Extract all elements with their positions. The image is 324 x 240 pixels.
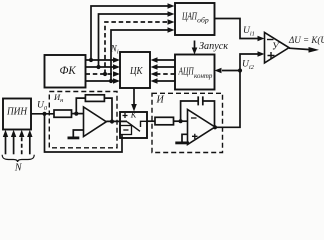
svg-text:ПИН: ПИН bbox=[6, 107, 28, 118]
wire ЦК to К bbox=[133, 88, 135, 105]
К switch lever bbox=[127, 122, 140, 132]
ground И_н bbox=[73, 130, 83, 137]
wire capacitor to output bbox=[203, 101, 215, 127]
wire bus line 1 (ФК to ЦК) bbox=[86, 59, 114, 61]
wire bus line 4 (ФК to ЦК) bbox=[86, 80, 114, 82]
op-amp И_н integrator bbox=[84, 107, 107, 137]
wire DAC bus bit 4 bbox=[111, 30, 168, 81]
К minus box bbox=[120, 126, 132, 135]
wire У output bbox=[289, 48, 310, 49]
block ЦК bbox=[120, 52, 150, 88]
wire DAC bus bit 2 bbox=[99, 14, 169, 67]
node dot И_н output bbox=[110, 119, 114, 123]
svg-text:обр: обр bbox=[197, 15, 209, 24]
resistor R2 feedback of И_н bbox=[85, 95, 104, 102]
node dot U0 bbox=[42, 112, 46, 116]
block ADC АЦПконтр bbox=[175, 55, 215, 90]
wire АЦПконтр to ЦК line 1 bbox=[157, 59, 175, 61]
arrowheads into ЦК right bbox=[151, 57, 158, 84]
arrowhead into У plus bbox=[258, 51, 265, 57]
brace under ПИН inputs bbox=[2, 155, 34, 162]
block ФК bbox=[45, 55, 86, 88]
op-amp У plus sign bbox=[268, 52, 275, 59]
wire R1 to op-amp bbox=[72, 113, 84, 115]
wire feedback up bbox=[76, 98, 85, 114]
wire feedback right down bbox=[104, 98, 112, 121]
node dot branch to АЦПконтр bbox=[238, 68, 242, 72]
wire bus line 3 dashed (ФК to ЦК) bbox=[86, 73, 114, 75]
node dot И feedback tap bbox=[179, 119, 183, 123]
op-amp У bbox=[265, 32, 290, 63]
wire bus line 2 (ФК to ЦК) bbox=[86, 66, 114, 68]
arrowhead Запуск into АЦПконтр bbox=[192, 48, 198, 55]
arrowheads into ЦАПобр bbox=[168, 3, 175, 33]
wire ПИН output U0 bbox=[31, 113, 54, 115]
dashed box И bbox=[152, 93, 223, 152]
op-amp И plus sign bbox=[192, 134, 198, 139]
wire Запуск bbox=[194, 41, 196, 49]
block ПИН bbox=[3, 99, 31, 130]
svg-text:ФК: ФК bbox=[60, 63, 77, 77]
capacitor C1 plates bbox=[198, 96, 203, 105]
node dot И output bbox=[213, 125, 217, 129]
node dot feedback tap bbox=[74, 112, 78, 116]
wire И_н output to К bbox=[106, 120, 127, 122]
resistor R1 input of И_н bbox=[54, 110, 72, 117]
К minus sign bbox=[123, 129, 128, 131]
svg-text:И: И bbox=[156, 95, 165, 106]
svg-text:Запуск: Запуск bbox=[199, 41, 228, 52]
wire К output bbox=[147, 120, 155, 122]
wire R3 to И op-amp bbox=[174, 120, 188, 122]
wire И output to У noninverting input bbox=[215, 54, 258, 127]
ПИН input arrows N bbox=[5, 136, 7, 154]
svg-text:контр: контр bbox=[194, 71, 213, 80]
op-amp И integrator bbox=[188, 110, 216, 145]
resistor R3 bbox=[155, 117, 174, 125]
node dots on bus bbox=[89, 58, 113, 83]
wire DAC bus bit 1 bbox=[91, 6, 168, 60]
К output jog bbox=[141, 121, 148, 127]
svg-text:К: К bbox=[130, 111, 137, 120]
wire К reference input from U0 bbox=[45, 114, 123, 152]
wire АЦПконтр to ЦК line 3 dashed bbox=[157, 73, 175, 75]
op-amp У minus sign bbox=[267, 39, 274, 41]
arrowheads into ЦК left bbox=[113, 57, 120, 84]
wire АЦПконтр to ЦК line 4 bbox=[157, 80, 175, 82]
ground И bbox=[182, 134, 188, 142]
К plus sign bbox=[123, 113, 128, 118]
arrowhead into У minus bbox=[258, 36, 265, 42]
svg-text:ЦАП: ЦАП bbox=[181, 10, 197, 22]
dashed box И_н bbox=[49, 92, 117, 148]
arrowhead into К bbox=[131, 104, 137, 112]
arrowhead У output bbox=[309, 47, 320, 53]
op-amp И minus sign bbox=[191, 117, 197, 119]
wire branch to АЦПконтр bbox=[222, 70, 240, 72]
wire АЦПконтр to ЦК line 2 bbox=[157, 66, 175, 68]
svg-text:N: N bbox=[14, 163, 23, 174]
svg-text:АЦП: АЦП bbox=[178, 65, 195, 77]
block К comparator bbox=[120, 112, 147, 138]
svg-text:ЦК: ЦК bbox=[129, 65, 143, 77]
arrowhead into АЦПконтр right bbox=[215, 68, 222, 74]
wire ЦАПобр output to У inverting input bbox=[215, 19, 259, 39]
wire И feedback up bbox=[181, 101, 199, 121]
wire DAC bus bit 3 dashed bbox=[105, 22, 168, 74]
block DAC ЦАПобр bbox=[175, 3, 215, 35]
